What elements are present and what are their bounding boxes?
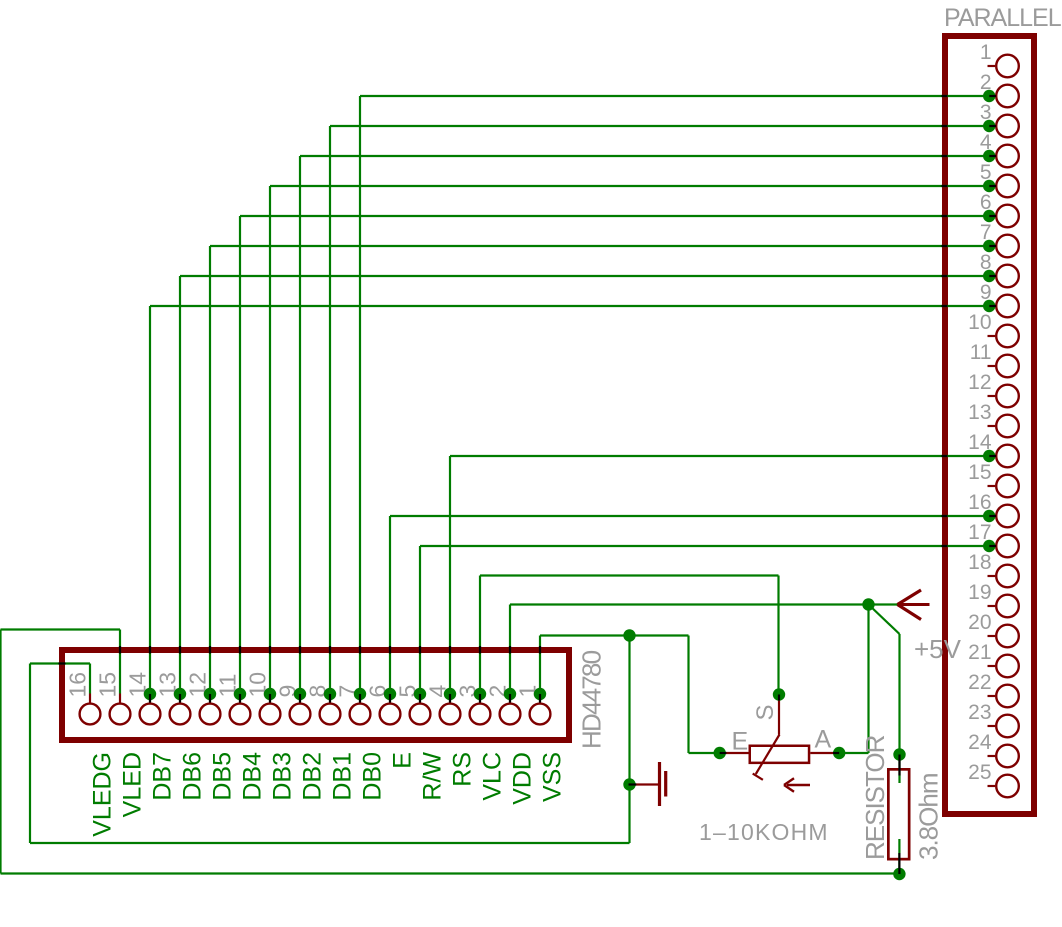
svg-text:DB0: DB0 xyxy=(359,752,387,801)
svg-text:DB7: DB7 xyxy=(149,752,177,801)
svg-text:12: 12 xyxy=(968,371,991,394)
svg-text:DB6: DB6 xyxy=(179,752,207,801)
svg-text:11: 11 xyxy=(970,341,992,364)
svg-text:VLED: VLED xyxy=(119,752,147,817)
svg-text:25: 25 xyxy=(968,761,991,784)
svg-text:19: 19 xyxy=(968,581,991,604)
svg-text:23: 23 xyxy=(968,701,991,724)
svg-text:DB4: DB4 xyxy=(239,752,267,801)
svg-text:22: 22 xyxy=(968,671,991,694)
svg-text:+5V: +5V xyxy=(914,634,962,664)
svg-text:20: 20 xyxy=(968,611,991,634)
svg-text:HD44780: HD44780 xyxy=(577,650,607,749)
svg-text:1: 1 xyxy=(980,41,992,64)
svg-text:15: 15 xyxy=(968,461,991,484)
svg-text:VDD: VDD xyxy=(509,752,537,805)
svg-text:10: 10 xyxy=(968,311,991,334)
svg-text:S: S xyxy=(752,704,779,720)
svg-text:1–10KOHM: 1–10KOHM xyxy=(699,819,829,845)
svg-text:RESISTOR: RESISTOR xyxy=(860,735,890,860)
svg-text:13: 13 xyxy=(968,401,991,424)
svg-text:E: E xyxy=(389,752,417,769)
svg-text:VSS: VSS xyxy=(539,752,567,802)
svg-text:A: A xyxy=(815,726,832,754)
svg-text:DB1: DB1 xyxy=(329,752,357,801)
svg-text:16: 16 xyxy=(65,672,91,698)
svg-text:R/W: R/W xyxy=(419,752,447,801)
svg-text:RS: RS xyxy=(449,752,477,787)
svg-text:PARALLELPORT: PARALLELPORT xyxy=(944,4,1062,32)
svg-text:VLEDG: VLEDG xyxy=(89,752,117,837)
svg-text:DB5: DB5 xyxy=(209,752,237,801)
svg-text:3.8Ohm: 3.8Ohm xyxy=(914,774,944,861)
svg-text:18: 18 xyxy=(968,551,991,574)
svg-text:24: 24 xyxy=(968,731,992,754)
svg-text:DB3: DB3 xyxy=(269,752,297,801)
svg-text:15: 15 xyxy=(95,672,121,698)
svg-text:VLC: VLC xyxy=(479,752,507,801)
svg-text:21: 21 xyxy=(968,641,991,664)
svg-text:E: E xyxy=(732,728,749,756)
svg-text:DB2: DB2 xyxy=(299,752,327,801)
